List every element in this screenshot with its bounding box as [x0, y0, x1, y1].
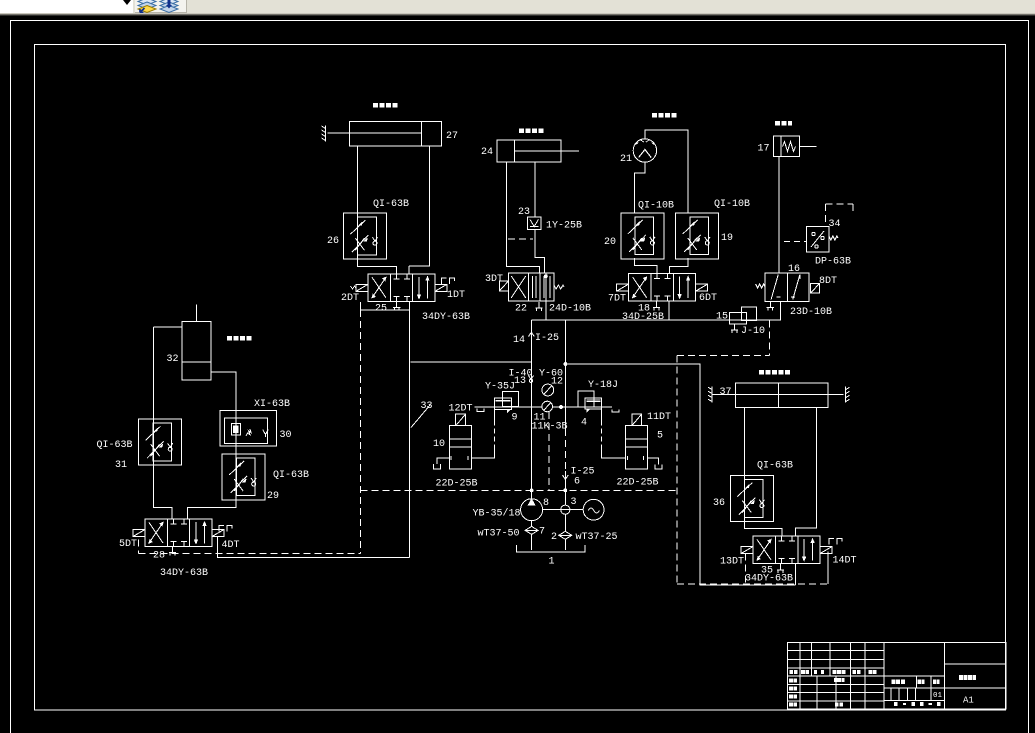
svg-text:15: 15 [716, 312, 728, 323]
svg-text:5DT: 5DT [119, 539, 137, 550]
svg-text:4DT: 4DT [222, 540, 240, 551]
svg-text:29: 29 [267, 491, 279, 502]
svg-text:34: 34 [829, 219, 841, 230]
svg-text:34DY-63B: 34DY-63B [745, 574, 793, 585]
svg-text:28: 28 [153, 551, 165, 562]
svg-text:16: 16 [788, 264, 800, 275]
svg-text:14: 14 [513, 335, 525, 346]
svg-text:01: 01 [933, 692, 943, 700]
svg-text:14DT: 14DT [833, 556, 857, 567]
svg-text:9: 9 [512, 413, 518, 424]
svg-text:Y-18J: Y-18J [588, 380, 618, 391]
svg-text:8: 8 [543, 498, 549, 509]
svg-text:wT37-25: wT37-25 [576, 532, 618, 543]
svg-text:33: 33 [421, 401, 433, 412]
svg-text:22D-25B: 22D-25B [617, 478, 659, 489]
svg-text:34D-25B: 34D-25B [622, 312, 664, 323]
svg-text:13DT: 13DT [720, 557, 744, 568]
svg-text:5: 5 [657, 431, 663, 442]
svg-text:2: 2 [551, 532, 557, 543]
svg-text:26: 26 [327, 236, 339, 247]
svg-text:27: 27 [446, 131, 458, 142]
svg-text:11DT: 11DT [647, 412, 671, 423]
svg-text:QI-63B: QI-63B [273, 470, 309, 481]
svg-text:7DT: 7DT [608, 294, 626, 305]
svg-text:QI-63B: QI-63B [97, 440, 133, 451]
svg-text:4: 4 [581, 418, 587, 429]
svg-text:QI-63B: QI-63B [757, 461, 793, 472]
svg-text:34DY-63B: 34DY-63B [160, 568, 208, 579]
svg-text:DP-63B: DP-63B [815, 257, 851, 268]
svg-text:3: 3 [571, 497, 577, 508]
svg-text:12DT: 12DT [449, 404, 473, 415]
svg-text:12: 12 [551, 377, 563, 388]
svg-text:25: 25 [375, 304, 387, 315]
svg-text:8DT: 8DT [819, 276, 837, 287]
svg-text:J-10: J-10 [741, 326, 765, 337]
svg-text:XI-63B: XI-63B [254, 399, 290, 410]
svg-text:19: 19 [721, 233, 733, 244]
svg-text:11K-3B: 11K-3B [532, 422, 568, 433]
svg-text:22: 22 [515, 304, 527, 315]
svg-text:23D-10B: 23D-10B [790, 307, 832, 318]
svg-text:13: 13 [514, 376, 526, 387]
svg-text:23: 23 [518, 207, 530, 218]
svg-text:3DT: 3DT [485, 274, 503, 285]
svg-text:Y-35J: Y-35J [485, 382, 515, 393]
svg-text:24D-10B: 24D-10B [549, 304, 591, 315]
svg-text:21: 21 [620, 154, 632, 165]
svg-text:6: 6 [574, 477, 580, 488]
svg-text:36: 36 [713, 498, 725, 509]
svg-text:6DT: 6DT [699, 293, 717, 304]
svg-text:1Y-25B: 1Y-25B [546, 221, 582, 232]
svg-text:30: 30 [280, 430, 292, 441]
svg-text:22D-25B: 22D-25B [436, 479, 478, 490]
svg-text:QI-63B: QI-63B [373, 199, 409, 210]
svg-text:YB-35/18: YB-35/18 [473, 508, 521, 520]
svg-text:31: 31 [115, 460, 127, 471]
svg-text:1: 1 [549, 557, 555, 568]
svg-text:A1: A1 [963, 696, 974, 706]
svg-text:I-25: I-25 [535, 333, 559, 344]
svg-text:wT37-50: wT37-50 [478, 529, 520, 540]
svg-text:7: 7 [539, 527, 545, 538]
svg-text:10: 10 [433, 439, 445, 450]
svg-text:37: 37 [720, 387, 732, 398]
svg-text:24: 24 [481, 147, 493, 158]
svg-text:QI-10B: QI-10B [638, 201, 674, 212]
svg-text:QI-10B: QI-10B [714, 199, 750, 210]
svg-text:34DY-63B: 34DY-63B [422, 312, 470, 323]
svg-text:20: 20 [604, 237, 616, 248]
svg-text:2DT: 2DT [341, 293, 359, 304]
svg-text:1DT: 1DT [447, 290, 465, 301]
svg-text:32: 32 [167, 354, 179, 365]
svg-text:17: 17 [758, 144, 770, 155]
